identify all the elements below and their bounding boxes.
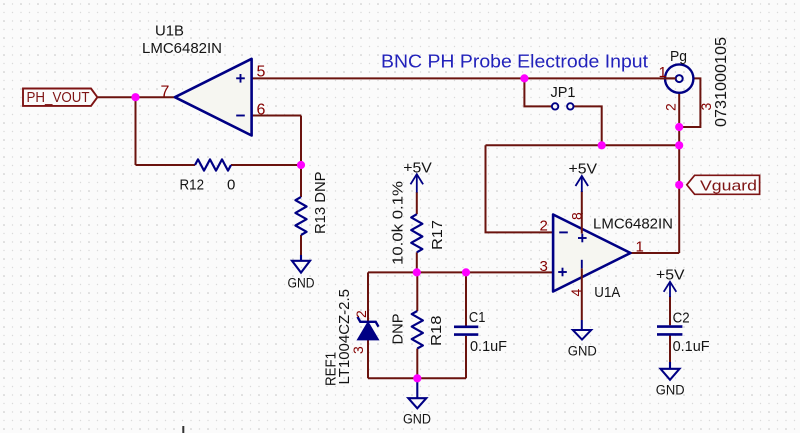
junction Vguard label (675, 181, 683, 189)
svg-text:LMC6482IN: LMC6482IN (593, 216, 673, 233)
wire pin4 U1A to GND (581, 269, 583, 321)
svg-text:Pg: Pg (670, 48, 687, 65)
svg-text:+5V: +5V (403, 160, 432, 177)
wire BNC pin3 loop (679, 78, 700, 127)
svg-text:DNP: DNP (390, 314, 407, 345)
svg-text:R12: R12 (180, 177, 205, 194)
resistor R18 (412, 311, 423, 349)
svg-text:7: 7 (161, 83, 170, 100)
op-amp U1A (553, 215, 630, 292)
ground symbol below R13 (292, 255, 310, 273)
wire JP1 to guard net (574, 106, 602, 145)
wire C2 bottom (669, 336, 671, 363)
wire pin5 U1B to BNC pin1 (252, 77, 676, 79)
svg-text:C2: C2 (673, 309, 690, 326)
resistor R17 (411, 214, 422, 252)
svg-text:0731000105: 0731000105 (713, 37, 730, 127)
svg-text:3: 3 (540, 258, 548, 275)
svg-text:C1: C1 (469, 309, 486, 326)
junction node B R12/R13/pin6 (297, 161, 305, 169)
op-amp U1A minus input marker (559, 231, 568, 233)
power +5V arrow at R17 (411, 174, 424, 192)
svg-text:3: 3 (698, 103, 714, 111)
svg-text:8: 8 (569, 212, 585, 220)
ground symbol U1A pin4 (573, 320, 591, 340)
svg-text:5: 5 (257, 63, 266, 80)
svg-text:U1B: U1B (155, 23, 184, 40)
junction node C probe wire (520, 74, 528, 82)
wire node C down to JP1 (524, 78, 551, 106)
svg-text:+5V: +5V (569, 160, 598, 177)
BNC connector Pg (665, 64, 693, 92)
junction node D R17 (413, 268, 421, 276)
wire pin6 down to node B (300, 116, 302, 166)
junction BNC pin3 loop (675, 123, 683, 131)
capacitor C1 (454, 327, 478, 335)
svg-text:2: 2 (663, 103, 679, 111)
wire pin1 overlay into BNC center (660, 77, 676, 79)
wire pin8 U1A from +5V upper part (581, 191, 583, 214)
svg-text:Vguard: Vguard (700, 177, 757, 194)
wire feedback vertical from node at output (135, 97, 137, 165)
wire bottom rail (368, 377, 466, 379)
svg-text:JP1: JP1 (551, 84, 576, 101)
wire pin6 U1B inverting input (252, 115, 301, 117)
op-amp U1B minus input marker (236, 115, 245, 117)
wire REF1 anode down (367, 340, 369, 379)
svg-text:BNC PH Probe Electrode Input: BNC PH Probe Electrode Input (381, 51, 648, 72)
op-amp U1B plus input marker (236, 74, 245, 83)
junction JP1 to guard (598, 141, 606, 149)
wire U1A output pin1 (631, 252, 680, 254)
op-amp U1A plus input marker (558, 268, 567, 277)
net label Vguard (687, 175, 760, 194)
junction bottom rail GND (413, 374, 421, 382)
junction node D C1 (462, 268, 470, 276)
wire pin8 U1A interior segment (581, 213, 583, 234)
wire R13 to GND (300, 235, 302, 256)
svg-text:6: 6 (257, 101, 266, 118)
svg-text:U1A: U1A (594, 284, 620, 301)
svg-text:GND: GND (568, 344, 597, 359)
wire C2 top from +5V (669, 296, 671, 325)
junction guard horizontal (675, 141, 683, 149)
ground symbol C2 (661, 362, 680, 380)
op-amp U1A V+ pin8 marker (578, 234, 587, 243)
svg-text:3: 3 (350, 346, 366, 354)
junction node output U1B (131, 93, 139, 101)
wire C1 top (465, 272, 467, 325)
svg-text:+5V: +5V (656, 266, 685, 283)
svg-text:0: 0 (227, 177, 235, 194)
svg-text:0.1uF: 0.1uF (673, 338, 710, 355)
power +5V arrow at U1A pin8 (576, 176, 589, 192)
power +5V arrow at C2 (664, 282, 677, 297)
svg-text:R18: R18 (428, 316, 445, 347)
svg-text:0.1uF: 0.1uF (470, 338, 507, 355)
wire node B to R13 (300, 165, 302, 197)
wire R17 to node D (416, 252, 418, 272)
op-amp U1A V- pin4 marker (581, 260, 583, 269)
op-amp U1B (mirrored) (175, 59, 252, 136)
wire +5V to R17 (416, 192, 418, 214)
wire R12 to node B (231, 164, 301, 166)
capacitor C2 (657, 327, 682, 335)
wire node D left to REF1 branch (367, 272, 369, 322)
svg-text:10.0k 0.1%: 10.0k 0.1% (389, 181, 406, 265)
wire guard vertical BNC pin2 down (678, 93, 680, 253)
svg-text:GND: GND (656, 383, 685, 398)
wire R18 bottom (416, 349, 418, 379)
svg-text:2: 2 (540, 218, 548, 235)
svg-text:1: 1 (636, 239, 644, 256)
svg-text:PH_VOUT: PH_VOUT (27, 90, 90, 106)
svg-text:LMC6482IN: LMC6482IN (142, 40, 222, 57)
wire C1 bottom (465, 336, 467, 379)
resistor R12 (195, 159, 231, 170)
svg-text:GND: GND (288, 276, 315, 291)
stray cursor tick mark (182, 426, 184, 433)
svg-text:GND: GND (403, 411, 431, 426)
ground symbol bottom rail (408, 378, 426, 408)
svg-text:4: 4 (568, 289, 584, 297)
wire pin3 U1A input net (368, 271, 553, 273)
wire guard horizontal (486, 144, 680, 146)
net label PH_VOUT (23, 89, 97, 106)
svg-text:1: 1 (659, 64, 667, 81)
wire R18 top (416, 272, 418, 311)
svg-text:R17: R17 (429, 220, 446, 250)
svg-text:2: 2 (353, 310, 369, 318)
wire pin7 U1B output to PH_VOUT (98, 96, 175, 98)
jumper JP1 open circles (552, 103, 574, 109)
wire feedback horizontal to R12 (136, 164, 196, 166)
zener diode REF1 (358, 317, 379, 340)
resistor R13 (295, 197, 306, 235)
svg-text:LT1004CZ-2.5: LT1004CZ-2.5 (336, 289, 353, 385)
wire guard down to pin2 U1A (486, 145, 554, 232)
svg-text:R13 DNP: R13 DNP (312, 172, 329, 235)
